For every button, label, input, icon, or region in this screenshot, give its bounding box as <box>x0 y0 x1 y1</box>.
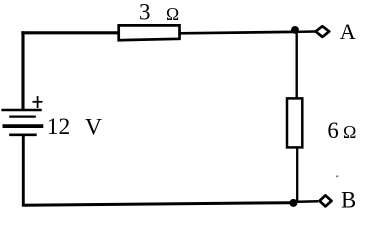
svg-text:V: V <box>85 114 102 140</box>
battery V1 plate 1 long positive <box>1 109 41 111</box>
resistor R2 6 ohm box <box>287 98 302 147</box>
wire left vertical (top corner down to battery + plate) <box>21 31 24 110</box>
wire bottom horizontal (battery - to node B) <box>22 203 290 206</box>
wire resistor R2 bottom down to node B <box>296 147 298 204</box>
svg-text:6: 6 <box>327 118 338 143</box>
node B junction dot <box>289 199 297 207</box>
node A junction dot <box>291 26 299 34</box>
terminal B diamond <box>320 195 332 206</box>
battery plus sign <box>33 96 43 108</box>
svg-text:12: 12 <box>47 114 71 140</box>
svg-text:3: 3 <box>139 0 151 24</box>
battery V1 plate 2 short <box>9 115 36 117</box>
wire node A down to resistor R2 top <box>296 30 298 99</box>
resistor R1 3 ohm box <box>119 25 180 40</box>
battery V1 plate 4 short negative <box>9 134 37 137</box>
wire node A to terminal A <box>295 30 316 33</box>
svg-text:Ω: Ω <box>166 4 179 24</box>
svg-text:B: B <box>341 187 356 212</box>
terminal A diamond <box>316 26 330 37</box>
wire from R1 right side to node A <box>180 32 293 33</box>
wire node B to terminal B <box>294 200 319 203</box>
wire top horizontal (battery + to resistor R1) <box>21 31 118 34</box>
svg-text:Ω: Ω <box>343 122 356 142</box>
wire battery negative stub down to bottom wire <box>22 135 25 207</box>
scan speck artifact <box>336 176 338 178</box>
battery V1 plate 3 long <box>3 124 44 128</box>
svg-text:A: A <box>340 19 356 44</box>
